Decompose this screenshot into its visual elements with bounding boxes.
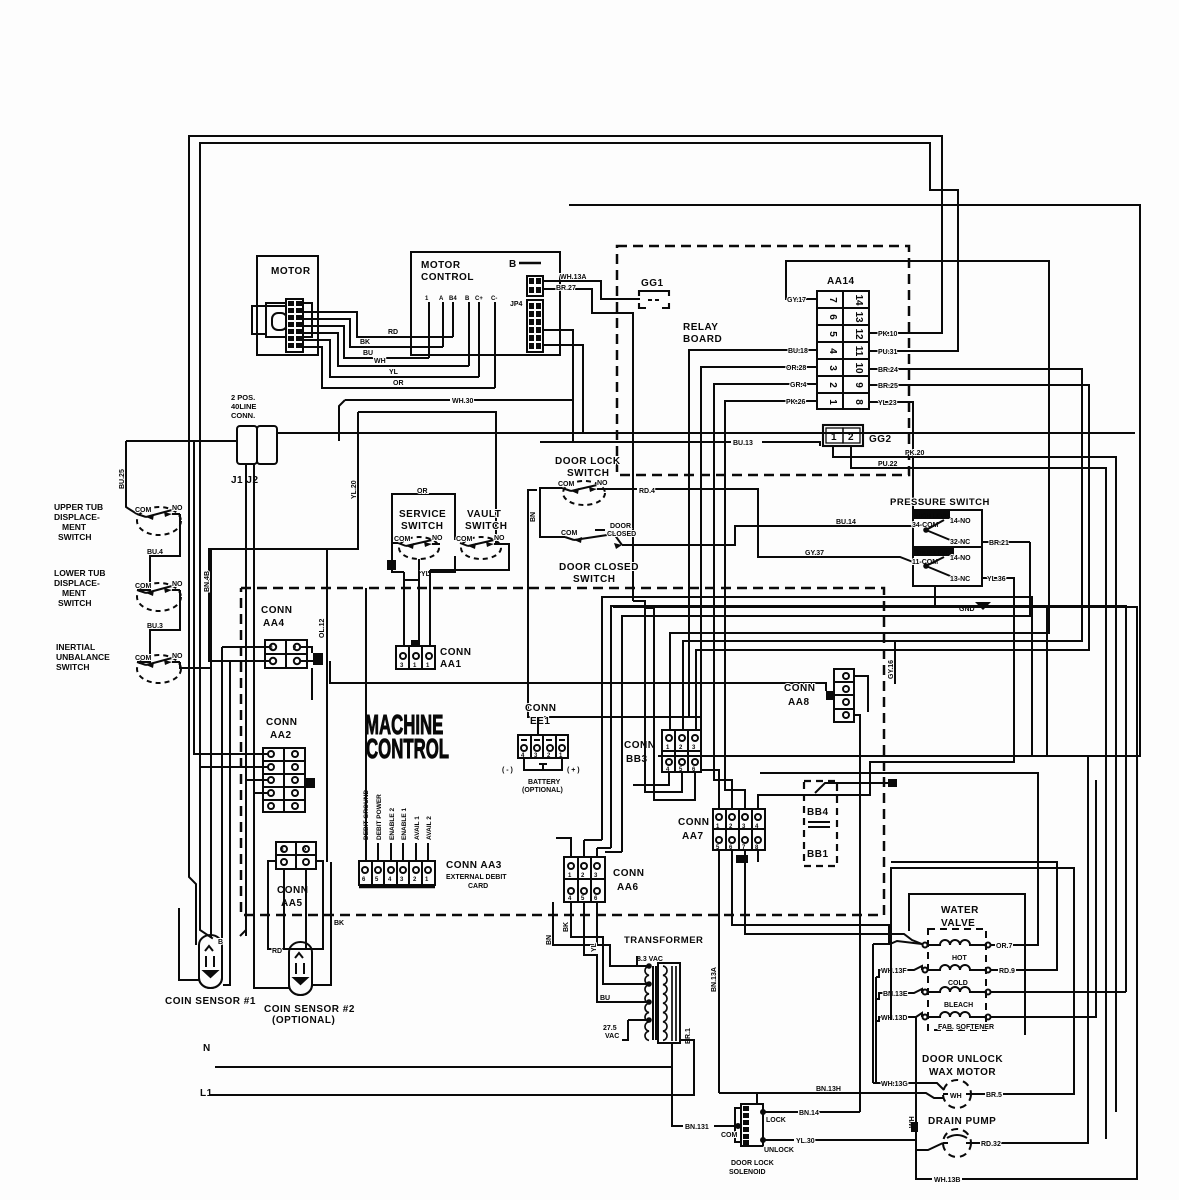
wire BU.25 drop: [126, 441, 137, 514]
svg-text:BU.25: BU.25: [119, 469, 126, 489]
svg-text:(OPTIONAL): (OPTIONAL): [522, 787, 563, 794]
wire BR.27 JP4 long vertical: [543, 289, 633, 601]
svg-text:AA14: AA14: [827, 276, 855, 287]
wires coin sensor 1: [179, 647, 230, 985]
svg-text:UPPER TUB: UPPER TUB: [54, 502, 103, 512]
label UPPER TUB DISPLACEMENT SWITCH: [54, 502, 103, 542]
svg-text:N: N: [203, 1043, 211, 1054]
svg-text:LOCK: LOCK: [766, 1117, 786, 1124]
svg-text:DOOR LOCK: DOOR LOCK: [555, 456, 621, 467]
svg-text:2: 2: [827, 382, 838, 388]
svg-text:BU.13: BU.13: [733, 440, 753, 447]
BB4 jumper: [808, 783, 893, 827]
svg-text:TRUE LEVEL: TRUE LEVEL: [916, 551, 954, 557]
svg-text:TRANSFORMER: TRANSFORMER: [624, 935, 703, 946]
wire BN.13H into wax motor: [719, 1093, 944, 1098]
svg-text:10: 10: [853, 362, 864, 374]
svg-text:NO: NO: [432, 535, 443, 542]
svg-text:BN.131: BN.131: [685, 1124, 709, 1131]
svg-text:13: 13: [853, 311, 864, 323]
wires AA7 bottom: [719, 850, 922, 1093]
pin B stub: [519, 262, 541, 265]
svg-text:BU.18: BU.18: [788, 348, 808, 355]
svg-text:B4: B4: [449, 296, 457, 302]
svg-text:PK.20: PK.20: [905, 450, 925, 457]
wire AA4 pins left: [222, 647, 322, 700]
svg-text:BN: BN: [530, 512, 537, 522]
wire BR.21: [982, 541, 1030, 543]
svg-text:SWITCH: SWITCH: [58, 598, 92, 608]
wire PK.26 pin1: [725, 401, 817, 809]
wire OL.12 vertical from J-area down: [326, 549, 328, 862]
motor connector pin strip: [286, 299, 303, 352]
wire PU.31 pin11: [869, 350, 958, 352]
svg-text:AA7: AA7: [682, 831, 704, 842]
svg-text:COIN SENSOR #2: COIN SENSOR #2: [264, 1004, 355, 1015]
svg-text:YL.30: YL.30: [796, 1138, 815, 1145]
svg-text:BK: BK: [334, 920, 344, 927]
svg-text:EXTERNAL DEBIT: EXTERNAL DEBIT: [446, 874, 507, 881]
transformer frame: [653, 963, 680, 1043]
wire upper NO down to lower COM: [137, 514, 180, 590]
AA14 pin numbers left col 7..1: [827, 297, 838, 405]
connector AA4: [265, 640, 307, 668]
svg-text:WH.13F: WH.13F: [881, 968, 907, 975]
svg-text:OR.28: OR.28: [786, 365, 806, 372]
svg-text:WH.13B: WH.13B: [934, 1177, 960, 1184]
svg-text:13-NC: 13-NC: [950, 576, 970, 583]
valve COLD coil: [923, 965, 991, 973]
wire L1 rail: [210, 1040, 694, 1095]
svg-text:7: 7: [827, 297, 838, 303]
switch door closed: [565, 530, 622, 545]
wire BU.18 pin4: [689, 350, 817, 717]
svg-text:9: 9: [853, 382, 864, 388]
svg-text:BU.3: BU.3: [147, 623, 163, 630]
wire 412 line: [358, 412, 496, 544]
wire BN.13H from solenoid top: [756, 1093, 758, 1104]
motor connector outer shell: [266, 303, 312, 337]
svg-text:BN.13H: BN.13H: [816, 1086, 841, 1093]
svg-text:HIGH LEVEL: HIGH LEVEL: [916, 514, 952, 520]
valve HOT coil: [923, 940, 991, 948]
svg-text:BATTERY: BATTERY: [528, 779, 561, 786]
transformer pin stubs left: [610, 956, 651, 1040]
svg-text:C-: C-: [491, 296, 497, 302]
wire WH.13A JP4 to GG1: [543, 281, 640, 601]
svg-text:INERTIAL: INERTIAL: [56, 642, 95, 652]
wire J1 down to coin area: [240, 464, 246, 936]
wire RD.9: [891, 862, 1057, 970]
svg-text:BR.25: BR.25: [878, 383, 898, 390]
svg-text:COM: COM: [721, 1132, 738, 1139]
svg-text:WH.13A: WH.13A: [560, 274, 586, 281]
connector EE1: [518, 735, 568, 758]
wire BU.13: [540, 442, 820, 446]
wire OR.28 pin3: [701, 367, 817, 809]
wire bundle left of motor: [252, 306, 286, 334]
svg-text:8.3 VAC: 8.3 VAC: [637, 956, 663, 963]
wire stair 3 to right bus: [622, 542, 1030, 852]
connector pin digits: [270, 646, 759, 902]
wire from J2 right long run: [277, 432, 1135, 434]
jp4 teeth: [529, 278, 541, 349]
svg-text:PU.31: PU.31: [878, 349, 898, 356]
wire EE1 top stub: [537, 717, 539, 735]
svg-text:BN.14: BN.14: [799, 1110, 819, 1117]
svg-text:COM: COM: [456, 536, 473, 543]
AA2 right tab: [306, 778, 315, 788]
svg-text:CONN: CONN: [261, 605, 292, 616]
svg-text:BLEACH: BLEACH: [944, 1002, 973, 1009]
svg-text:AVAIL 1: AVAIL 1: [414, 816, 421, 840]
svg-text:CONN: CONN: [277, 885, 308, 896]
svg-text:BR.5: BR.5: [986, 1092, 1002, 1099]
svg-text:WH: WH: [374, 358, 386, 365]
switch inertial unbalance: [137, 655, 181, 683]
wire BR.5: [891, 868, 1074, 1094]
svg-text:A: A: [439, 296, 444, 302]
svg-text:COM: COM: [558, 481, 575, 488]
wire YL.23 pin8: [869, 402, 913, 510]
motor connector inner key: [272, 313, 287, 330]
motor wires: [252, 306, 583, 544]
wire YL.36: [758, 578, 1014, 809]
wires AA2 left: [194, 441, 268, 930]
wire big right loop from JP4 to right side: [570, 205, 1140, 756]
svg-text:CONN: CONN: [624, 740, 655, 751]
BB4 jumper tab: [888, 779, 897, 787]
svg-text:14-NO: 14-NO: [950, 555, 971, 562]
wires AA6 top: [556, 838, 597, 857]
wire J2 down: [253, 464, 255, 926]
svg-text:WH.13D: WH.13D: [881, 1015, 907, 1022]
label YL tick: [419, 571, 435, 573]
wire BR.25 pin9: [696, 385, 1089, 730]
svg-text:CONN: CONN: [613, 868, 644, 879]
svg-text:B: B: [509, 259, 517, 270]
AA14 left wires: [670, 261, 1049, 809]
svg-text:BOARD: BOARD: [683, 334, 722, 345]
coin sensor 2 symbol: [289, 942, 312, 995]
svg-text:YL.20: YL.20: [351, 480, 358, 499]
svg-text:( + ): ( + ): [567, 767, 580, 774]
svg-text:CONN: CONN: [784, 683, 815, 694]
svg-text:AA2: AA2: [270, 730, 292, 741]
ground: [935, 586, 1047, 756]
wire WH.13F: [876, 966, 922, 977]
svg-text:6: 6: [827, 314, 838, 320]
motor box: [257, 256, 318, 355]
wire GY.17 pin7 loop to right: [670, 261, 1049, 730]
svg-text:PU.22: PU.22: [878, 461, 898, 468]
wire RD.4: [605, 489, 913, 562]
label INERTIAL UNBALANCE SWITCH: [56, 642, 110, 672]
svg-text:WATER: WATER: [941, 905, 979, 916]
connector AA8: [834, 669, 854, 722]
svg-text:AVAIL 2: AVAIL 2: [426, 816, 433, 840]
svg-text:BB1: BB1: [807, 849, 829, 860]
wires service down to AA1: [392, 543, 430, 646]
connector AA5: [276, 842, 316, 869]
motor pin teeth: [288, 301, 302, 348]
svg-text:BN.13E: BN.13E: [883, 991, 908, 998]
svg-text:BU: BU: [600, 995, 610, 1002]
service switch box: [392, 494, 455, 572]
label 2 POS. 40LINE CONN.: [231, 393, 256, 420]
switch arrowheads: [146, 487, 622, 668]
svg-text:MOTOR: MOTOR: [421, 260, 461, 271]
svg-text:1: 1: [827, 399, 838, 405]
svg-text:VALVE: VALVE: [941, 918, 975, 929]
svg-text:CONN: CONN: [440, 647, 471, 658]
svg-text:2 POS.: 2 POS.: [231, 393, 255, 402]
svg-text:RD.32: RD.32: [981, 1141, 1001, 1148]
wire drain pump left: [916, 1017, 943, 1150]
svg-text:DISPLACE-: DISPLACE-: [54, 512, 100, 522]
svg-text:DRAIN PUMP: DRAIN PUMP: [928, 1116, 996, 1127]
svg-text:BN.4B: BN.4B: [204, 571, 211, 592]
svg-text:GY.17: GY.17: [787, 297, 806, 304]
svg-text:NO: NO: [172, 581, 183, 588]
water valve dashed box: [928, 929, 986, 1030]
wire PK.10 pin12: [869, 332, 942, 334]
solenoid body: [735, 1104, 763, 1146]
wire WH.13B: [613, 607, 1137, 1179]
svg-text:COM: COM: [561, 530, 578, 537]
pressure switch box: [913, 510, 982, 586]
svg-text:CONN: CONN: [678, 817, 709, 828]
svg-text:OL.12: OL.12: [319, 618, 326, 638]
svg-text:BR.1: BR.1: [685, 1028, 692, 1044]
svg-text:NO: NO: [172, 505, 183, 512]
valve BLEACH coil: [923, 987, 991, 995]
stub wires inside motor control: [428, 302, 430, 358]
connector AA7: [713, 809, 765, 850]
svg-text:SWITCH: SWITCH: [573, 574, 615, 585]
svg-text:BN.13A: BN.13A: [711, 967, 718, 992]
wire JP4 second stub down: [543, 330, 573, 442]
AA4 right tab: [313, 653, 323, 665]
svg-text:UNLOCK: UNLOCK: [764, 1147, 794, 1154]
wire OR: [303, 347, 495, 388]
motor control box: [411, 252, 560, 355]
box around AA5: [268, 861, 323, 949]
svg-text:B: B: [218, 939, 223, 946]
wire PU.22 from GG2: [851, 446, 1106, 1139]
wire BU: [303, 326, 429, 358]
svg-text:BK: BK: [563, 922, 570, 932]
svg-text:SWITCH: SWITCH: [567, 468, 609, 479]
svg-text:C+: C+: [475, 296, 483, 302]
wire door area left loop down: [528, 490, 700, 717]
label MACHINE CONTROL: [365, 709, 449, 765]
wire door lock COM down to door closed: [540, 488, 565, 537]
svg-text:DOOR LOCK: DOOR LOCK: [731, 1160, 774, 1167]
wire PK.20 from GG2: [833, 446, 1116, 1139]
svg-text:BU.4: BU.4: [147, 549, 163, 556]
switch upper tub displacement: [137, 507, 181, 535]
svg-text:YL: YL: [389, 369, 399, 376]
svg-text:ENABLE 2: ENABLE 2: [389, 807, 396, 840]
svg-text:BR.21: BR.21: [989, 540, 1009, 547]
connector AA1: [396, 646, 435, 669]
svg-text:PK.10: PK.10: [878, 331, 898, 338]
svg-text:CARD: CARD: [468, 883, 488, 890]
svg-text:MENT: MENT: [62, 522, 87, 532]
wire mains into J1: [126, 433, 1135, 936]
svg-text:5: 5: [827, 331, 838, 337]
wire BLEACH right: [991, 991, 1126, 993]
connector J1 J2: [237, 426, 277, 464]
wire YL.20 vertical: [209, 412, 358, 662]
wire BR.24 pin10: [683, 369, 1082, 730]
svg-text:32-NC: 32-NC: [950, 539, 970, 546]
relay board dashed box: [617, 246, 909, 475]
svg-text:PRESSURE SWITCH: PRESSURE SWITCH: [890, 497, 990, 508]
svg-text:WH.13G: WH.13G: [881, 1081, 908, 1088]
rotated pin labels: [363, 790, 433, 841]
AA14 pin numbers right col 14..8: [853, 294, 864, 405]
svg-text:AA6: AA6: [617, 882, 639, 893]
svg-text:VAC: VAC: [605, 1033, 619, 1040]
svg-text:AA1: AA1: [440, 659, 462, 670]
svg-text:4: 4: [827, 348, 838, 354]
coin sensor 1 symbol: [199, 935, 222, 988]
svg-text:14: 14: [853, 294, 864, 306]
wire GR.4 pin2: [714, 384, 817, 809]
svg-text:COM: COM: [135, 507, 152, 514]
wire outer top border loop: [189, 136, 942, 941]
svg-text:MENT: MENT: [62, 588, 87, 598]
wire inertial NO long run right: [180, 661, 826, 691]
svg-text:L1: L1: [200, 1088, 213, 1099]
wire stair 1 to right bus: [602, 597, 1032, 840]
svg-text:BK: BK: [360, 339, 370, 346]
svg-text:RD.4: RD.4: [639, 488, 655, 495]
label LOWER TUB DISPLACEMENT SWITCH: [54, 568, 105, 608]
connector AA14: [817, 291, 869, 409]
svg-text:BU: BU: [363, 350, 373, 357]
svg-text:RELAY: RELAY: [683, 322, 718, 333]
svg-text:(OPTIONAL): (OPTIONAL): [272, 1015, 335, 1026]
connector GG1: [639, 291, 669, 308]
wire WH.30 long run: [345, 399, 450, 401]
svg-text:11: 11: [853, 346, 864, 357]
svg-text:AA8: AA8: [788, 697, 810, 708]
svg-text:MOTOR: MOTOR: [271, 266, 311, 277]
wires coin sensor 2: [246, 862, 331, 988]
svg-text:CLOSED: CLOSED: [607, 531, 636, 538]
wires AA3 label stubs: [366, 588, 428, 861]
wire YL.30 unlock: [761, 1138, 916, 1142]
WH.13C black tab: [911, 1122, 918, 1132]
svg-text:COM: COM: [394, 536, 411, 543]
AA1 top tab: [411, 640, 420, 647]
switch lower tub displacement: [137, 583, 181, 611]
svg-text:( - ): ( - ): [502, 767, 513, 774]
svg-text:WH.30: WH.30: [452, 398, 474, 405]
svg-text:GY.16: GY.16: [888, 660, 895, 679]
svg-text:27.5: 27.5: [603, 1025, 617, 1032]
water valve outer box: [909, 894, 1025, 1035]
wire vault NO down loop: [404, 544, 509, 580]
wire BN.13E: [876, 989, 922, 999]
wire WH.13G: [873, 1083, 944, 1090]
svg-text:SWITCH: SWITCH: [401, 521, 443, 532]
svg-text:BR.27: BR.27: [556, 285, 576, 292]
wires AA8: [854, 676, 868, 1112]
service box B tab: [387, 560, 396, 570]
svg-text:EE1: EE1: [530, 716, 550, 727]
wire BN.14 lock: [761, 1110, 860, 1114]
switch vault: [460, 537, 502, 559]
wire lower NO down to inertial COM: [137, 590, 180, 662]
wire stair 2 to right bus: [611, 606, 1126, 992]
wire HOT left bus: [873, 941, 922, 1083]
svg-text:GG1: GG1: [641, 278, 664, 289]
connector BB3: [662, 730, 701, 772]
wire door closed out: [622, 526, 913, 545]
valve FAB SOFTENER coil: [923, 1012, 991, 1020]
wire GY.16 bridge: [894, 641, 896, 684]
connector GG2: [823, 425, 863, 446]
svg-text:DEBIT POWER: DEBIT POWER: [376, 794, 383, 840]
svg-text:YL.36: YL.36: [987, 576, 1006, 583]
svg-text:DOOR: DOOR: [610, 523, 631, 530]
wire WH.13D: [876, 1013, 922, 1021]
AA8 left tab: [826, 691, 834, 700]
switch door lock: [562, 481, 605, 505]
motor control internal stubs: [429, 302, 495, 388]
svg-text:YL.23: YL.23: [878, 400, 897, 407]
svg-text:SOLENOID: SOLENOID: [729, 1169, 766, 1176]
svg-text:SWITCH: SWITCH: [465, 521, 507, 532]
svg-text:SERVICE: SERVICE: [399, 509, 446, 520]
svg-text:12: 12: [853, 328, 864, 340]
svg-text:AA4: AA4: [263, 618, 285, 629]
svg-text:B: B: [465, 296, 470, 302]
svg-text:CONN.: CONN.: [231, 411, 255, 420]
svg-text:FAB. SOFTENER: FAB. SOFTENER: [938, 1024, 994, 1031]
svg-text:UNBALANCE: UNBALANCE: [56, 652, 110, 662]
svg-text:BU.14: BU.14: [836, 519, 856, 526]
svg-text:WAX MOTOR: WAX MOTOR: [929, 1067, 996, 1078]
switch high contact: [924, 520, 957, 544]
switch low contact: [924, 557, 957, 580]
svg-text:CONN: CONN: [266, 717, 297, 728]
AA7 bottom tab: [736, 855, 748, 863]
svg-text:40LINE: 40LINE: [231, 402, 256, 411]
svg-text:JP4: JP4: [510, 301, 523, 308]
svg-text:3: 3: [827, 365, 838, 371]
wire RD: [303, 312, 453, 337]
svg-text:DOOR CLOSED: DOOR CLOSED: [559, 562, 639, 573]
wire BK: [303, 319, 443, 347]
svg-text:CONTROL: CONTROL: [366, 733, 449, 765]
wire N rail: [215, 1066, 672, 1068]
svg-text:SWITCH: SWITCH: [58, 532, 92, 542]
svg-text:CONN: CONN: [525, 703, 556, 714]
svg-text:OR: OR: [393, 380, 404, 387]
connector AA3: [359, 861, 435, 885]
svg-text:COM: COM: [135, 655, 152, 662]
svg-text:RD: RD: [388, 329, 398, 336]
wire bn4b vertical: [210, 549, 212, 938]
svg-text:NO: NO: [172, 653, 183, 660]
svg-text:COM: COM: [135, 583, 152, 590]
wire FAB right: [991, 780, 1096, 1017]
